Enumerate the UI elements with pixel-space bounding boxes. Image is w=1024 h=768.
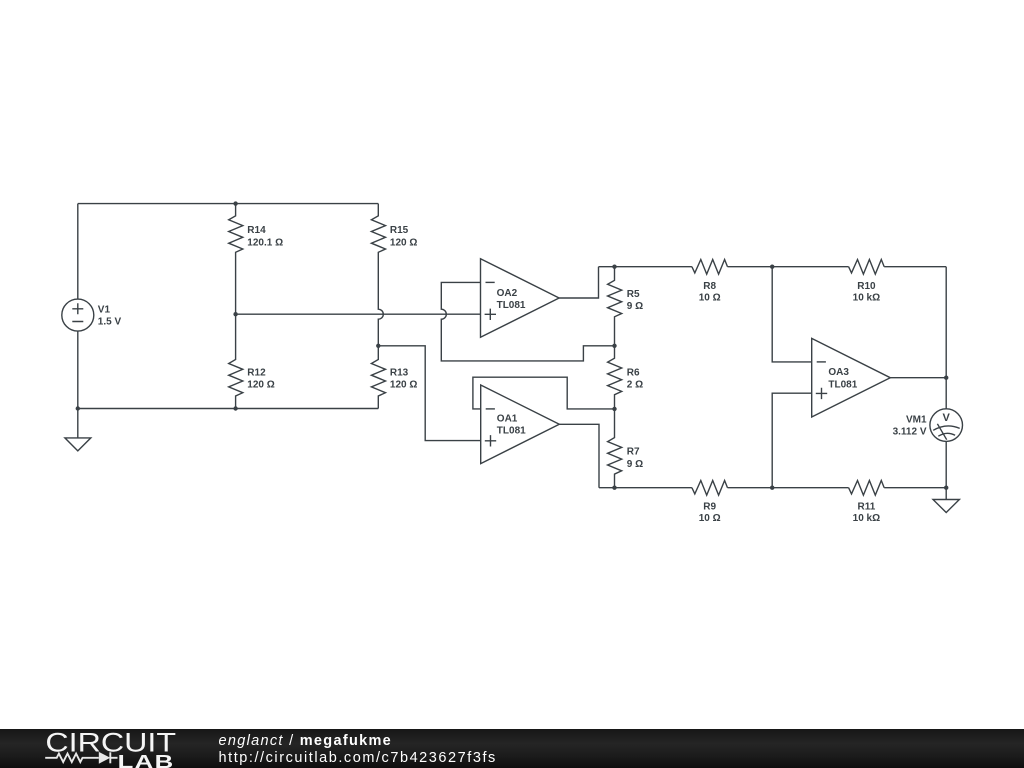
voltmeter VM1 <box>930 409 963 442</box>
ground GND left <box>65 409 91 451</box>
node top rail / R14 <box>233 201 237 205</box>
op-amp OA2 <box>481 259 560 338</box>
svg-text:R5: R5 <box>627 289 640 300</box>
svg-text:R15: R15 <box>390 225 409 236</box>
voltage source V1 <box>62 299 94 331</box>
node R9-R11 <box>770 486 774 490</box>
svg-text:10 kΩ: 10 kΩ <box>853 292 880 303</box>
svg-text:TL081: TL081 <box>828 379 857 390</box>
wire bottom-right rail seg2 <box>728 487 849 489</box>
svg-text:10 Ω: 10 Ω <box>699 292 721 303</box>
resistor R10 <box>849 260 885 275</box>
wire right rail upper <box>945 267 947 409</box>
logo diode triangle <box>99 752 111 764</box>
resistor R15 with wire hop <box>371 204 385 346</box>
resistor R8 <box>692 260 728 275</box>
wire middle rail to OA2 + <box>236 313 481 315</box>
svg-text:9 Ω: 9 Ω <box>627 459 643 470</box>
svg-text:120 Ω: 120 Ω <box>390 380 417 391</box>
node R15-R13 tap <box>376 344 380 348</box>
svg-text:R7: R7 <box>627 447 640 458</box>
svg-text:TL081: TL081 <box>497 300 526 311</box>
svg-text:V1: V1 <box>98 304 111 315</box>
svg-text:10 Ω: 10 Ω <box>699 513 721 524</box>
svg-text:OA2: OA2 <box>497 288 518 299</box>
svg-text:R13: R13 <box>390 367 409 378</box>
node bottom rail / ground <box>76 406 80 410</box>
wire bottom-left rail <box>78 408 379 410</box>
wire top-left rail <box>78 203 379 205</box>
wire bottom-right rail seg1 <box>599 487 692 489</box>
svg-text:R12: R12 <box>247 367 266 378</box>
svg-text:R6: R6 <box>627 368 640 379</box>
node R8-R10 <box>770 265 774 269</box>
svg-text:R8: R8 <box>703 281 716 292</box>
node R6-R7 <box>612 407 616 411</box>
svg-text:VM1: VM1 <box>906 415 927 426</box>
svg-text:2 Ω: 2 Ω <box>627 380 643 391</box>
resistor R6 <box>608 346 622 409</box>
wire OA2 - feedback with hop <box>441 282 614 361</box>
wire OA3 + to R9 junction <box>772 393 812 488</box>
node mid rail / R14-R12 <box>233 312 237 316</box>
resistor R12 <box>229 314 243 408</box>
resistor R5 <box>608 267 622 346</box>
ground GND right <box>933 488 959 513</box>
svg-text:120 Ω: 120 Ω <box>390 237 417 248</box>
footer title <box>219 733 393 749</box>
wire R8 junction to OA3 - <box>772 267 812 362</box>
svg-text:TL081: TL081 <box>497 426 526 437</box>
node bottom rail / R12 <box>233 406 237 410</box>
node OA3 output <box>944 376 948 380</box>
wire OA2 output <box>559 267 598 298</box>
wire bridge tap to OA1 + <box>378 346 480 441</box>
svg-text:9 Ω: 9 Ω <box>627 301 643 312</box>
wire top-right rail seg1 <box>599 266 692 268</box>
logo resistor-diode wire <box>45 752 117 763</box>
svg-text:LAB: LAB <box>118 751 175 768</box>
svg-text:R10: R10 <box>857 281 876 292</box>
node R7 bottom <box>612 486 616 490</box>
resistor R9 <box>692 481 728 496</box>
wire V1 bottom lead <box>77 331 79 408</box>
wire top-right rail seg3 <box>884 266 946 268</box>
resistor R11 <box>849 481 885 496</box>
resistor R7 <box>608 409 622 488</box>
wire top-right rail seg2 <box>728 266 849 268</box>
wire V1 top lead <box>77 204 79 300</box>
wire bottom-right rail seg3 <box>884 487 946 489</box>
svg-text:1.5 V: 1.5 V <box>98 317 122 328</box>
node R5-R6 <box>612 344 616 348</box>
svg-text:3.112 V: 3.112 V <box>893 427 927 438</box>
node R5 top <box>612 265 616 269</box>
svg-text:R9: R9 <box>703 502 716 513</box>
node VM1 bottom / ground <box>944 486 948 490</box>
footer bar <box>0 729 1024 768</box>
svg-text:R11: R11 <box>858 502 876 513</box>
svg-text:OA1: OA1 <box>497 413 518 424</box>
svg-text:10 kΩ: 10 kΩ <box>853 513 880 524</box>
op-amp OA3 <box>812 338 891 417</box>
resistor R13 <box>371 346 385 409</box>
svg-text:120 Ω: 120 Ω <box>247 380 274 391</box>
op-amp OA1 <box>481 385 560 464</box>
footer url <box>219 750 497 766</box>
wire OA3 output <box>890 377 946 379</box>
svg-text:R14: R14 <box>247 225 266 236</box>
svg-text:120.1 Ω: 120.1 Ω <box>247 237 283 248</box>
svg-text:OA3: OA3 <box>828 367 849 378</box>
wire OA1 output <box>559 424 599 487</box>
svg-text:V: V <box>943 412 951 424</box>
wire OA1 - feedback loop <box>473 377 615 409</box>
wire VM1 bottom <box>945 441 947 487</box>
resistor R14 <box>229 204 243 315</box>
